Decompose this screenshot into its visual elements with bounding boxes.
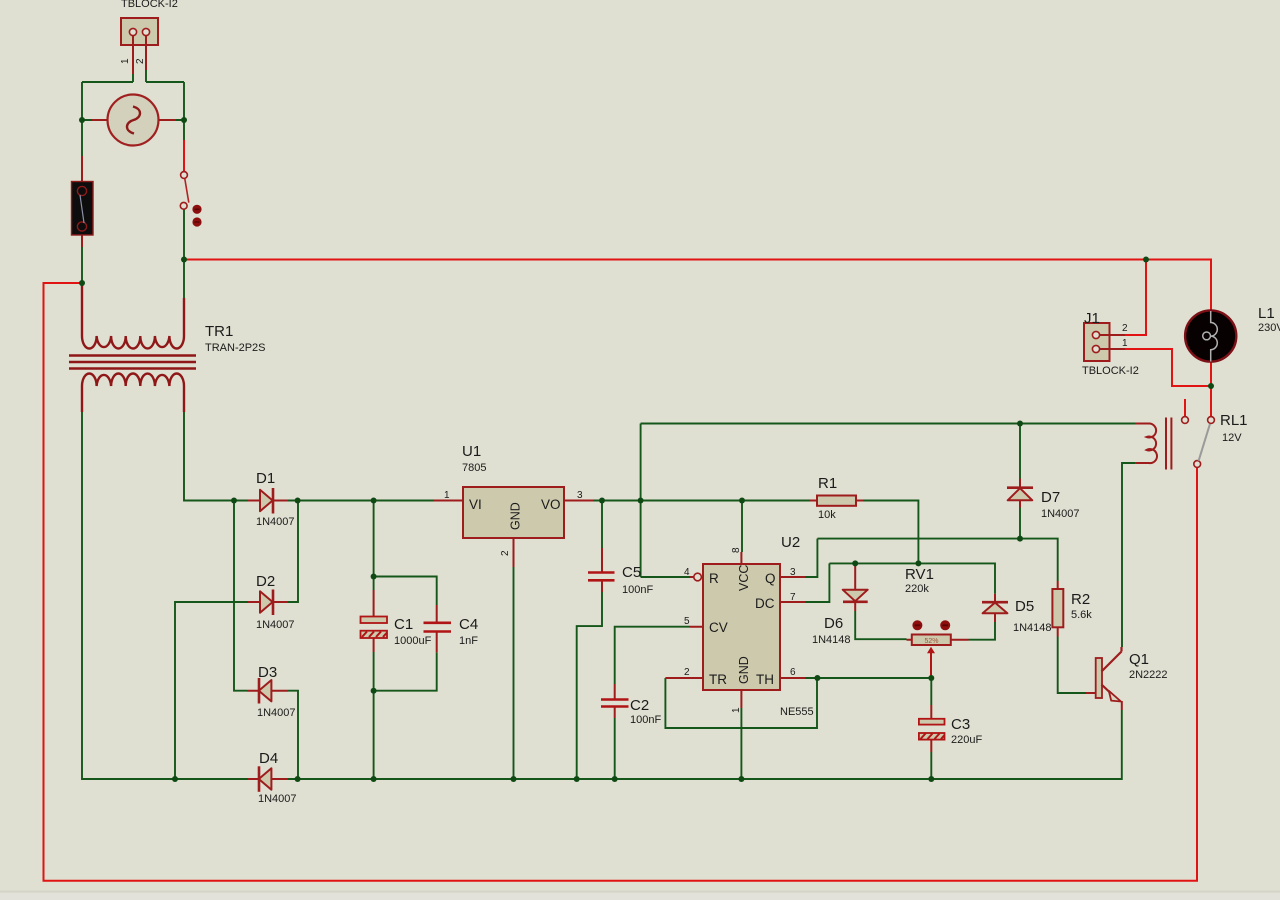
wire red J1 pin1 to lamp bottom: [1125, 349, 1211, 386]
svg-text:1N4007: 1N4007: [257, 707, 296, 719]
node C3 ground junction: [928, 776, 934, 782]
diode D3: [247, 678, 288, 704]
svg-text:Q: Q: [765, 571, 776, 586]
wire top block pin1 to AC loop: [82, 74, 133, 120]
svg-text:C1: C1: [394, 616, 413, 633]
node U1 ground junction: [511, 776, 517, 782]
svg-text:12V: 12V: [1222, 432, 1242, 444]
svg-text:VI: VI: [469, 497, 482, 512]
svg-text:GND: GND: [737, 656, 751, 684]
terminal block J1: [1084, 323, 1125, 361]
diode D4: [248, 766, 288, 792]
svg-text:C5: C5: [622, 564, 641, 581]
diode D6: [843, 563, 868, 611]
node D1 cathode junction: [295, 498, 301, 504]
svg-text:1: 1: [444, 490, 450, 501]
svg-text:5: 5: [684, 616, 690, 627]
wire C3 top: [930, 678, 932, 705]
svg-text:TRAN-2P2S: TRAN-2P2S: [205, 342, 266, 354]
svg-text:U2: U2: [781, 534, 800, 551]
resistor R1: [810, 496, 863, 506]
lamp L1: [1185, 310, 1236, 361]
resistor R2: [1052, 581, 1063, 637]
node switch-primary junction: [181, 257, 187, 263]
wire VO to top rail riser: [640, 424, 642, 501]
diode D7: [1007, 479, 1033, 508]
svg-text:VCC: VCC: [737, 565, 751, 591]
switch SW1: [180, 172, 201, 227]
switch actuator buttons: [192, 205, 201, 214]
svg-text:5.6k: 5.6k: [1071, 609, 1092, 621]
node D6 top junction: [852, 560, 858, 566]
svg-text:1N4007: 1N4007: [1041, 508, 1080, 520]
svg-text:7805: 7805: [462, 462, 486, 474]
svg-text:1: 1: [731, 707, 742, 713]
node D1 anode junction: [231, 498, 237, 504]
svg-text:1: 1: [1122, 338, 1128, 349]
wire switch bottom to primary right: [183, 209, 185, 298]
svg-text:D4: D4: [259, 750, 278, 767]
node C5 rail junction: [599, 498, 605, 504]
node C1-C4 bottom junction: [371, 688, 377, 694]
svg-text:2: 2: [135, 58, 146, 64]
wire C5 top: [601, 501, 603, 549]
svg-text:1N4148: 1N4148: [1013, 622, 1052, 634]
wire red switch top: [183, 140, 185, 172]
svg-text:1N4007: 1N4007: [256, 516, 295, 528]
capacitor C2: [601, 684, 629, 718]
wire red J1 pin2 drop: [1125, 260, 1146, 336]
svg-text:R1: R1: [818, 475, 837, 492]
node fuse-primary junction: [79, 280, 85, 286]
svg-text:D1: D1: [256, 470, 275, 487]
wire TH pin6 line: [805, 677, 931, 679]
timer U2 NE555: [665, 552, 805, 708]
relay contact RL1: [1182, 399, 1215, 467]
wire D5 anode to RV1 right: [969, 622, 996, 640]
svg-text:3: 3: [790, 567, 796, 578]
svg-text:C4: C4: [459, 616, 478, 633]
svg-text:TBLOCK-I2: TBLOCK-I2: [121, 0, 178, 10]
svg-text:U1: U1: [462, 443, 481, 460]
svg-text:TH: TH: [756, 672, 774, 687]
svg-text:52%: 52%: [924, 638, 938, 645]
svg-text:R2: R2: [1071, 591, 1090, 608]
node D2 ground junction: [172, 776, 178, 782]
svg-text:10k: 10k: [818, 509, 836, 521]
svg-text:TR1: TR1: [205, 323, 233, 340]
node mains-J1 junction: [1143, 257, 1149, 263]
wire top block pin2 to AC loop: [146, 70, 184, 140]
svg-text:3: 3: [577, 490, 583, 501]
svg-text:RV1: RV1: [905, 566, 934, 583]
node AC right junction: [181, 117, 187, 123]
svg-text:1000uF: 1000uF: [394, 635, 432, 647]
relay coil RL1: [1135, 418, 1171, 470]
wire secondary right to D1: [184, 412, 248, 501]
node D7 bottom junction: [1017, 536, 1023, 542]
wire top rail to relay coil: [641, 423, 1138, 425]
svg-text:Q1: Q1: [1129, 651, 1149, 668]
svg-text:J1: J1: [1084, 310, 1100, 327]
wire U2 GND pin1 to ground rail: [740, 708, 742, 779]
wire TR pin2 loop: [665, 678, 817, 728]
wire R2 bottom to Q1 base: [1058, 637, 1086, 694]
fuse FU1: [72, 156, 94, 247]
AC source V1: [92, 95, 176, 146]
wire D2 cathode riser: [288, 501, 298, 603]
node AC left junction: [79, 117, 85, 123]
svg-text:7: 7: [790, 592, 796, 603]
node C5 ground junction: [574, 776, 580, 782]
wire D6 anode to RV1 left: [855, 611, 906, 639]
svg-text:2: 2: [684, 667, 690, 678]
svg-text:VO: VO: [541, 497, 561, 512]
wire C3 bottom to ground: [930, 752, 932, 779]
node TH-TR junction: [814, 675, 820, 681]
svg-text:1N4007: 1N4007: [256, 619, 295, 631]
svg-text:100nF: 100nF: [622, 584, 653, 596]
svg-text:DC: DC: [755, 596, 775, 611]
svg-text:1N4007: 1N4007: [258, 793, 297, 805]
wire C1 C4 bottom branch: [374, 652, 437, 779]
svg-text:TR: TR: [709, 672, 727, 687]
node C2 ground junction: [612, 776, 618, 782]
svg-text:220uF: 220uF: [951, 734, 982, 746]
wire diode top rail: [829, 563, 995, 593]
wire fuse to primary junction: [81, 247, 83, 283]
capacitor C1: [361, 590, 388, 652]
svg-text:L1: L1: [1258, 305, 1275, 322]
svg-text:2N2222: 2N2222: [1129, 669, 1168, 681]
node RV1 riser junction: [915, 560, 921, 566]
svg-text:D3: D3: [258, 664, 277, 681]
svg-text:R: R: [709, 571, 719, 586]
potentiometer RV1: [907, 620, 969, 678]
node D4 ground junction: [295, 776, 301, 782]
wire D7 top branch: [1019, 424, 1021, 479]
regulator U1 7805: [434, 487, 593, 567]
wire C2 bottom to ground: [614, 718, 616, 779]
svg-text:NE555: NE555: [780, 706, 814, 718]
node U2 ground junction: [738, 776, 744, 782]
wire D3 anode to ground rail: [288, 691, 298, 779]
wire red mains return loop: [44, 283, 1198, 881]
wire R1 right to RV1 center riser: [863, 501, 918, 564]
node VCC pin8 junction: [739, 498, 745, 504]
node lamp bottom junction: [1208, 383, 1214, 389]
potentiometer actuator buttons: [912, 620, 922, 630]
capacitor C4: [424, 605, 452, 652]
svg-text:TBLOCK-I2: TBLOCK-I2: [1082, 365, 1139, 377]
wire C1 C4 top branch: [374, 501, 437, 606]
svg-text:100nF: 100nF: [630, 714, 661, 726]
node D7 top rail junction: [1017, 421, 1023, 427]
svg-text:2: 2: [500, 550, 511, 556]
svg-text:4: 4: [684, 567, 690, 578]
node top-rail riser junction: [638, 498, 644, 504]
wire D7 bottom branch: [1019, 508, 1021, 539]
svg-text:8: 8: [731, 547, 742, 553]
wire U2 DC pin7 to diode rail: [805, 563, 829, 602]
node C1 rail junction: [371, 498, 377, 504]
node C1 ground junction: [371, 776, 377, 782]
wire secondary left to bottom rail: [82, 412, 248, 779]
wire CV pin5 to C2: [615, 627, 690, 684]
wire U1 GND to ground rail: [513, 567, 515, 779]
terminal block top TBLOCK-I2: [121, 18, 158, 74]
svg-text:1N4148: 1N4148: [812, 634, 851, 646]
capacitor C5: [588, 548, 615, 592]
svg-text:1: 1: [120, 58, 131, 64]
svg-text:C2: C2: [630, 697, 649, 714]
svg-text:D2: D2: [256, 573, 275, 590]
svg-text:CV: CV: [709, 620, 728, 635]
bottom edge strip: [0, 891, 1280, 893]
transformer TR1: [69, 283, 196, 412]
wire VCC pin8 riser: [741, 501, 743, 553]
wire Q output line to R2: [817, 539, 1057, 581]
svg-text:220k: 220k: [905, 583, 929, 595]
diode D1: [248, 488, 288, 514]
wire D3 cathode branch: [234, 501, 247, 691]
svg-text:RL1: RL1: [1220, 412, 1248, 429]
svg-text:D5: D5: [1015, 598, 1034, 615]
diode D2: [248, 590, 288, 616]
wire mains live red top: [184, 260, 1211, 313]
svg-text:6: 6: [790, 667, 796, 678]
node wiper-C3 junction: [928, 675, 934, 681]
wire D1 cathode to U1 VI: [288, 500, 434, 502]
wire relay coil bottom to Q1 collector: [1122, 463, 1135, 647]
wire D2 anode branch: [175, 602, 248, 779]
wire U2 Q pin3 riser: [805, 539, 817, 577]
transistor Q1 2N2222: [1086, 647, 1122, 710]
svg-text:D6: D6: [824, 615, 843, 632]
wire ground rail: [288, 710, 1122, 779]
svg-text:1nF: 1nF: [459, 635, 478, 647]
wire AC left to fuse: [82, 120, 184, 156]
wire R pin4 from VO riser: [641, 501, 690, 578]
node C1-C4 top junction: [371, 574, 377, 580]
svg-text:230V: 230V: [1258, 322, 1280, 334]
wire red lamp bottom to relay common: [1210, 362, 1212, 417]
capacitor C3: [919, 705, 945, 752]
svg-text:GND: GND: [509, 502, 523, 530]
wire C5 bottom to ground: [577, 592, 602, 779]
svg-text:D7: D7: [1041, 489, 1060, 506]
wire U1 VO rail: [593, 500, 810, 502]
svg-text:C3: C3: [951, 716, 970, 733]
diode D5: [982, 594, 1008, 622]
svg-text:2: 2: [1122, 323, 1128, 334]
